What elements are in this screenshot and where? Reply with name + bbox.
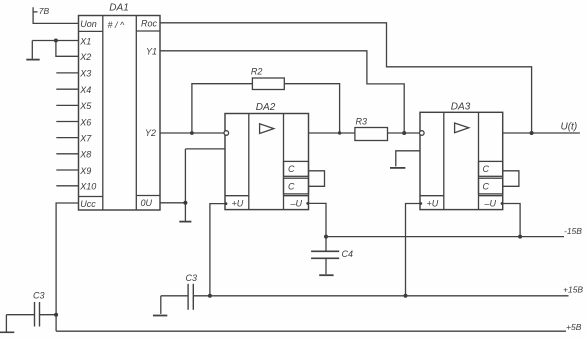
resistor R3 xyxy=(355,128,388,141)
svg-text:–U: –U xyxy=(290,199,303,209)
svg-text:DA1: DA1 xyxy=(109,3,128,14)
wire DA2 non-inverting input xyxy=(185,148,225,150)
wire stub X10 xyxy=(56,185,78,187)
wire DA3 -U to -15B rail xyxy=(503,204,520,237)
wire R2 left leg xyxy=(192,84,253,133)
wire stub X4 xyxy=(56,88,78,90)
node DA3 -U / -15B rail xyxy=(518,235,522,239)
svg-text:C: C xyxy=(483,164,490,174)
svg-text:X8: X8 xyxy=(79,150,91,160)
capacitor C4 xyxy=(311,251,339,274)
rail -15B xyxy=(326,236,564,238)
svg-text:U(t): U(t) xyxy=(561,122,578,133)
op-amp DA2 body xyxy=(225,114,309,210)
svg-text:7B: 7B xyxy=(39,6,50,16)
ground (DA2 + input) xyxy=(179,221,191,223)
svg-text:C3: C3 xyxy=(33,290,45,300)
node Y2/R2 junction xyxy=(190,131,194,135)
svg-text:C: C xyxy=(288,181,295,191)
svg-text:X1: X1 xyxy=(79,36,91,46)
svg-text:# / ^: # / ^ xyxy=(108,20,126,30)
ground (X1 net) xyxy=(26,59,39,61)
node DA2 +U / +15B rail xyxy=(208,294,212,298)
wire R3 to DA3 input xyxy=(388,132,420,134)
wire C3 left to edge xyxy=(0,315,35,333)
op-amp DA3 body xyxy=(420,112,503,209)
svg-text:X10: X10 xyxy=(79,182,96,192)
resistor R2 xyxy=(252,78,284,90)
wire stub X8 xyxy=(56,153,78,155)
wire DA2 +U to +15B rail xyxy=(210,204,225,296)
rail +5B xyxy=(56,330,566,332)
wire DA3 output xyxy=(503,132,580,134)
DA3 amplifier triangle xyxy=(455,123,469,133)
wire DA2 output through R3 xyxy=(309,132,355,134)
node R3/Y1 junction xyxy=(402,131,406,135)
node R2/output junction xyxy=(338,131,341,134)
wire DA3 non-inverting input to ground xyxy=(396,151,420,167)
wire R2 right leg xyxy=(284,84,339,133)
wire to ground from X1 xyxy=(31,41,33,59)
wire Ucc down to +5B rail xyxy=(56,203,78,331)
svg-text:C: C xyxy=(483,181,490,191)
wire stub X9 xyxy=(56,169,78,171)
node DA3 output / Roc junction xyxy=(530,131,534,135)
svg-text:DA2: DA2 xyxy=(256,102,276,113)
node X1/X2 junction xyxy=(54,39,58,43)
svg-text:X4: X4 xyxy=(79,85,91,95)
svg-text:+U: +U xyxy=(427,199,439,209)
capacitor C3 (input, bottom left) xyxy=(35,302,40,327)
wire C3 to ground xyxy=(160,296,162,314)
svg-text:DA3: DA3 xyxy=(451,101,471,112)
ground (C4) xyxy=(319,274,333,276)
svg-text:X3: X3 xyxy=(79,69,91,79)
wire stub X6 xyxy=(56,121,78,123)
svg-text:Ucc: Ucc xyxy=(80,199,96,209)
wire stub X7 xyxy=(56,137,78,139)
IC DA1 (DAC) outer box xyxy=(79,16,161,211)
pin labels X1..X10 xyxy=(79,36,96,191)
node DA2 -U pin xyxy=(306,202,309,205)
terminal -7B xyxy=(33,7,78,23)
svg-text:-15B: -15B xyxy=(564,226,582,236)
wire Roc feedback to DA3 output xyxy=(160,23,532,133)
wire Y1 to DA3 input node xyxy=(160,51,404,133)
node DA3 +U pin xyxy=(419,202,422,205)
svg-text:X6: X6 xyxy=(79,117,91,127)
wire stub X5 xyxy=(56,104,78,106)
node DA2 -U / -15B rail xyxy=(324,235,328,239)
svg-text:+U: +U xyxy=(232,199,244,209)
svg-text:X7: X7 xyxy=(79,133,92,143)
svg-text:X5: X5 xyxy=(79,101,92,111)
capacitor C3 (rail decoupling) xyxy=(188,284,193,310)
wire X1 input xyxy=(32,40,78,42)
svg-text:+5B: +5B xyxy=(566,322,582,332)
svg-text:Roc: Roc xyxy=(141,19,158,29)
svg-text:X2: X2 xyxy=(79,52,91,62)
wire DA3 +U to +15B rail xyxy=(406,204,421,296)
svg-text:Uon: Uon xyxy=(80,19,97,29)
svg-text:+15B: +15B xyxy=(563,285,583,295)
node 0U junction xyxy=(183,201,187,205)
wire X2 from junction xyxy=(56,41,79,57)
DA3 correction bracket xyxy=(503,171,519,187)
svg-text:–U: –U xyxy=(484,199,497,209)
ground (DA3 + input) xyxy=(390,167,405,169)
wire Y2 output to DA2 input xyxy=(160,132,224,134)
node C3/Ucc junction xyxy=(54,313,58,317)
ground (C3 rail) xyxy=(153,315,167,317)
svg-text:Y1: Y1 xyxy=(146,47,157,57)
wire stub X3 xyxy=(56,72,78,74)
node DA3 +U / +15B rail xyxy=(404,294,408,298)
svg-text:R2: R2 xyxy=(251,67,263,77)
svg-text:X9: X9 xyxy=(79,166,91,176)
node DA2 +U pin xyxy=(225,202,228,205)
wire DA2 -U down xyxy=(309,203,327,251)
svg-text:C3: C3 xyxy=(186,273,198,283)
svg-text:C: C xyxy=(288,164,295,174)
rail +15B xyxy=(161,295,569,297)
wire 0U to ground vertical xyxy=(160,202,185,204)
svg-text:C4: C4 xyxy=(342,249,354,259)
wire C3 right to Ucc net xyxy=(40,314,57,316)
svg-text:0U: 0U xyxy=(141,198,153,208)
DA2 correction bracket xyxy=(309,171,325,187)
svg-text:R3: R3 xyxy=(356,116,368,126)
DA2 inverting input circle xyxy=(224,131,229,136)
DA2 amplifier triangle xyxy=(260,124,274,134)
node DA3 -U pin xyxy=(501,202,504,205)
DA3 inverting input circle xyxy=(420,131,425,136)
svg-text:Y2: Y2 xyxy=(145,128,156,138)
